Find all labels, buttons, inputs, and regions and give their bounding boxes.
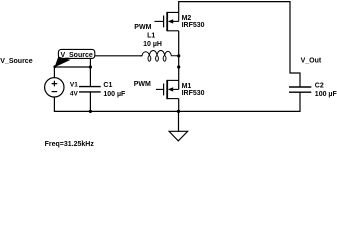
svg-text:100 µF: 100 µF (315, 91, 337, 98)
junction dot at ground rail (177, 110, 180, 113)
voltage source V1 circle (45, 78, 64, 97)
svg-text:C2: C2 (315, 83, 324, 90)
svg-text:V_Out: V_Out (301, 58, 322, 65)
svg-text:V_Source: V_Source (0, 58, 32, 65)
svg-text:L1: L1 (147, 33, 155, 40)
svg-text:IRF530: IRF530 (182, 90, 205, 97)
transistor M2 channel bar (166, 12, 168, 31)
transistor M1 gate bar (163, 84, 165, 96)
transistor M1 drain stub (167, 79, 179, 81)
V1 minus sign (52, 91, 58, 93)
capacitor C1 plates (79, 87, 101, 92)
junction dot at L1 / switch node (177, 54, 180, 57)
transistor M2 gate lead (154, 20, 163, 22)
wire C1 top lead (89, 58, 91, 86)
svg-text:Freq=31.25kHz: Freq=31.25kHz (45, 141, 95, 148)
transistor M2 body arrow (173, 20, 179, 22)
node label V_Source callout box (58, 49, 94, 58)
svg-text:100 µF: 100 µF (103, 91, 126, 98)
svg-text:4V: 4V (70, 90, 79, 97)
inductor L1 loop 2 (156, 56, 159, 61)
V1 plus sign (52, 81, 58, 87)
transistor M2 source stub (167, 30, 179, 32)
transistor M1 gate lead (156, 88, 164, 90)
junction dot at V_Source tap (53, 65, 56, 68)
wire C1 bottom lead (89, 92, 91, 112)
transistor M2 drain stub (167, 12, 179, 21)
wire V1 top lead (54, 67, 90, 78)
wire switch node vertical M2 source to M1 drain (178, 31, 180, 90)
svg-text:IRF530: IRF530 (182, 22, 205, 29)
ground stem (178, 111, 180, 131)
capacitor C2 plates (289, 87, 311, 92)
junction dot at C1 top (89, 65, 92, 68)
svg-text:PWM: PWM (134, 81, 151, 88)
node label V_Source callout pointer (55, 57, 71, 68)
svg-text:PWM: PWM (134, 24, 151, 31)
wire bottom rail (54, 92, 300, 111)
svg-text:M1: M1 (182, 83, 192, 90)
wire top rail from M2 drain to V_Out branch (179, 2, 300, 87)
svg-text:C1: C1 (103, 82, 112, 89)
ground symbol triangle (169, 131, 188, 141)
transistor M1 source stub (167, 98, 179, 100)
junction dot on switch node vertical (177, 65, 180, 68)
svg-text:10 µH: 10 µH (143, 41, 162, 48)
inductor L1 (141, 50, 179, 55)
inductor L1 loop 3 (163, 56, 166, 61)
wire M1 source to ground rail (178, 99, 180, 112)
transistor M1 channel bar (166, 80, 168, 99)
junction dot at C1 bottom rail (89, 110, 92, 113)
inductor L1 loop 1 (148, 56, 151, 61)
transistor M2 gate bar (163, 16, 165, 28)
svg-text:M2: M2 (182, 15, 192, 22)
svg-text:V_Source: V_Source (60, 52, 92, 59)
transistor M1 body arrow (173, 88, 179, 90)
wire main from V_Source box to L1 (95, 55, 142, 57)
svg-text:V1: V1 (70, 81, 78, 88)
